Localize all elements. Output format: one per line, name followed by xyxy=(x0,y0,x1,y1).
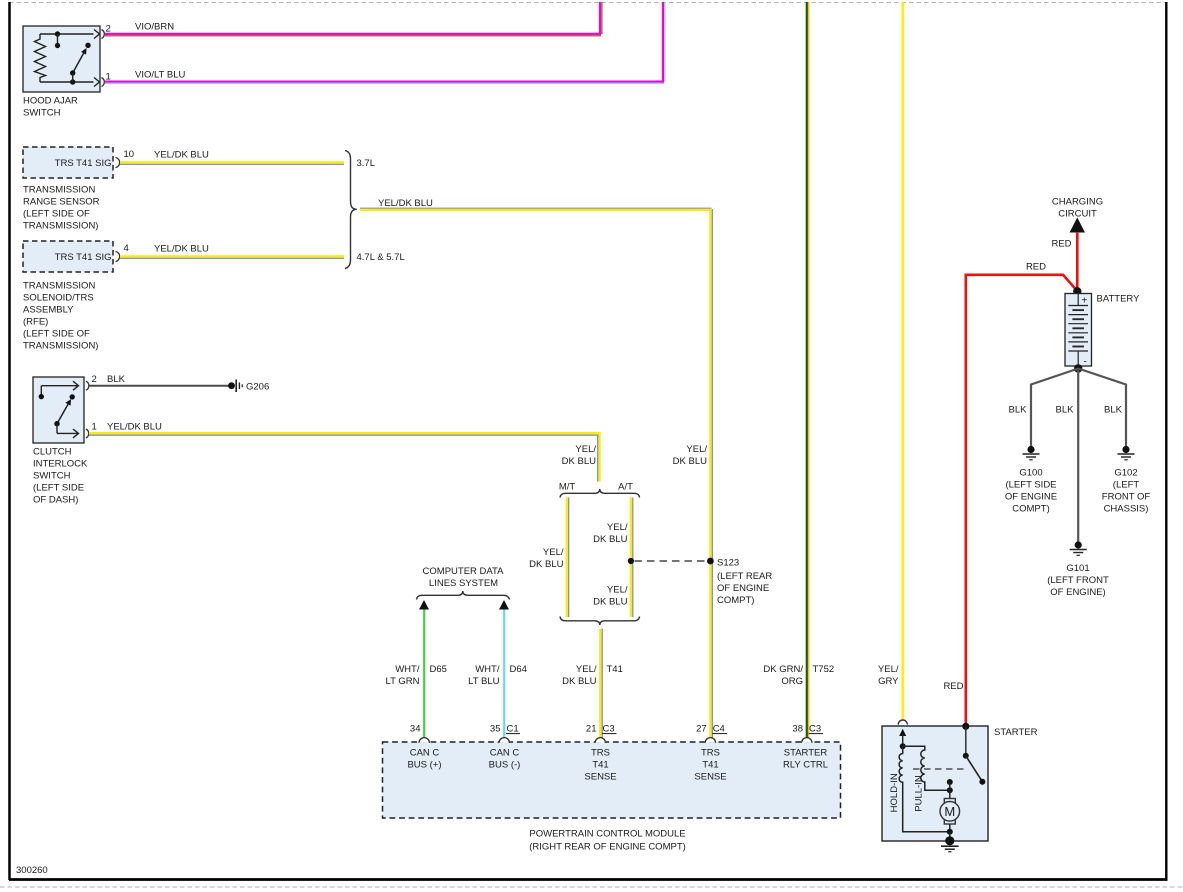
svg-text:BLK: BLK xyxy=(1009,405,1028,416)
starter box xyxy=(882,726,988,841)
svg-text:CLUTCH: CLUTCH xyxy=(33,447,72,458)
long vertical wire YEL/DK BLU to PCM pin 27 xyxy=(673,209,713,738)
svg-text:+: + xyxy=(1082,296,1088,307)
svg-text:YEL/: YEL/ xyxy=(543,547,564,558)
svg-text:C4: C4 xyxy=(713,724,725,735)
svg-text:YEL/: YEL/ xyxy=(878,664,899,675)
wire WHT/LT GRN D65 xyxy=(386,610,447,738)
PCM pin function labels xyxy=(407,748,828,783)
svg-text:SENSE: SENSE xyxy=(584,772,616,783)
wire RED battery to charging circuit xyxy=(1051,232,1077,291)
ground G206 xyxy=(228,380,269,393)
svg-text:VIO/LT BLU: VIO/LT BLU xyxy=(135,69,185,80)
svg-text:4.7L & 5.7L: 4.7L & 5.7L xyxy=(357,252,405,263)
svg-text:C3: C3 xyxy=(603,724,615,735)
engine variant merge brace xyxy=(345,151,405,269)
svg-text:RANGE SENSOR: RANGE SENSOR xyxy=(23,197,100,208)
svg-text:FRONT OF: FRONT OF xyxy=(1102,492,1151,503)
svg-text:WHT/: WHT/ xyxy=(475,664,500,675)
svg-text:C3: C3 xyxy=(809,724,821,735)
ground G101 xyxy=(1047,541,1109,598)
computer data lines system callout xyxy=(417,566,510,600)
wire YEL/GRY to starter xyxy=(878,2,903,720)
svg-text:SENSE: SENSE xyxy=(694,772,726,783)
svg-text:G101: G101 xyxy=(1066,563,1089,574)
svg-text:4: 4 xyxy=(124,243,129,254)
svg-text:(LEFT SIDE OF: (LEFT SIDE OF xyxy=(23,209,90,220)
svg-text:SOLENOID/TRS: SOLENOID/TRS xyxy=(23,293,94,304)
starter connector arc xyxy=(898,720,907,725)
svg-text:YEL/: YEL/ xyxy=(576,664,597,675)
svg-text:INTERLOCK: INTERLOCK xyxy=(33,459,88,470)
svg-text:3.7L: 3.7L xyxy=(357,158,376,169)
svg-text:1: 1 xyxy=(92,422,97,433)
svg-text:YEL/: YEL/ xyxy=(575,444,596,455)
svg-text:COMPT): COMPT) xyxy=(1012,504,1049,515)
svg-text:OF DASH): OF DASH) xyxy=(33,495,78,506)
svg-text:CIRCUIT: CIRCUIT xyxy=(1058,209,1097,220)
PCM pin 38 C3 xyxy=(792,724,823,735)
svg-text:(RIGHT REAR OF ENGINE COMPT): (RIGHT REAR OF ENGINE COMPT) xyxy=(529,842,686,853)
svg-text:35: 35 xyxy=(490,724,501,735)
svg-text:T752: T752 xyxy=(813,664,835,675)
ground G100 xyxy=(1005,446,1057,515)
wire YEL/DK BLU pin 10 (3.7L) xyxy=(120,150,344,165)
M/T A/T split brace xyxy=(559,482,640,498)
svg-text:TRS T41 SIG: TRS T41 SIG xyxy=(55,252,112,263)
svg-text:CHARGING: CHARGING xyxy=(1052,197,1103,208)
transmission solenoid/TRS assembly box xyxy=(23,241,129,352)
svg-text:TRANSMISSION: TRANSMISSION xyxy=(23,185,95,196)
svg-text:S123: S123 xyxy=(717,558,739,569)
svg-text:YEL/: YEL/ xyxy=(686,444,707,455)
PCM pin 27 C4 xyxy=(696,724,727,735)
CAN C bus (-) arrow xyxy=(499,600,509,610)
svg-text:BATTERY: BATTERY xyxy=(1097,294,1141,305)
PCM connector arcs xyxy=(419,738,812,743)
svg-text:BLK: BLK xyxy=(1104,405,1123,416)
starter feed arrow xyxy=(899,729,906,749)
svg-text:COMPT): COMPT) xyxy=(717,595,754,606)
svg-text:HOLD-IN: HOLD-IN xyxy=(889,773,900,812)
dashed splice link to S123 xyxy=(635,560,707,562)
svg-text:CAN C: CAN C xyxy=(410,748,440,759)
wire VIO/LT BLU (pin 1 to top) xyxy=(105,2,665,84)
svg-text:TRANSMISSION): TRANSMISSION) xyxy=(23,341,98,352)
svg-text:-: - xyxy=(1084,357,1087,368)
M/T A/T merge brace xyxy=(560,617,640,626)
svg-text:M: M xyxy=(944,804,955,819)
svg-text:DK BLU: DK BLU xyxy=(593,597,627,608)
M/T branch wire YEL/DK BLU xyxy=(529,498,569,618)
battery xyxy=(1065,294,1140,368)
svg-text:(LEFT SIDE: (LEFT SIDE xyxy=(33,483,84,494)
svg-text:DK GRN/: DK GRN/ xyxy=(763,664,803,675)
wire DK GRN/ORG T752 xyxy=(763,2,834,738)
svg-text:RED: RED xyxy=(943,681,963,692)
transmission range sensor box xyxy=(23,147,134,232)
svg-text:TRS: TRS xyxy=(701,748,720,759)
svg-text:10: 10 xyxy=(124,149,135,160)
svg-text:CAN C: CAN C xyxy=(490,748,520,759)
svg-text:OF ENGINE: OF ENGINE xyxy=(1005,492,1057,503)
svg-text:34: 34 xyxy=(410,724,421,735)
svg-text:YEL/DK BLU: YEL/DK BLU xyxy=(378,198,433,209)
charging circuit arrow xyxy=(1070,218,1086,233)
PCM box xyxy=(383,742,841,818)
svg-text:TRANSMISSION: TRANSMISSION xyxy=(23,281,95,292)
svg-text:RLY CTRL: RLY CTRL xyxy=(783,760,828,771)
svg-text:YEL/DK BLU: YEL/DK BLU xyxy=(107,422,162,433)
svg-text:DK BLU: DK BLU xyxy=(562,676,596,687)
starter motor M xyxy=(940,799,960,832)
svg-text:T41: T41 xyxy=(607,664,623,675)
svg-text:TRS: TRS xyxy=(591,748,610,759)
svg-text:21: 21 xyxy=(586,724,597,735)
merged wire YEL/DK BLU to A/T branch xyxy=(360,198,712,210)
svg-text:RED: RED xyxy=(1026,262,1046,273)
svg-text:DK BLU: DK BLU xyxy=(593,534,627,545)
PCM pin 35 C1 xyxy=(490,724,520,735)
svg-text:LINES SYSTEM: LINES SYSTEM xyxy=(429,578,498,589)
svg-text:SWITCH: SWITCH xyxy=(23,108,61,119)
svg-text:GRY: GRY xyxy=(878,676,899,687)
svg-text:300260: 300260 xyxy=(16,865,48,876)
svg-text:T41: T41 xyxy=(592,760,608,771)
svg-text:38: 38 xyxy=(792,724,803,735)
svg-text:(LEFT FRONT: (LEFT FRONT xyxy=(1047,575,1109,586)
wire YEL/DK BLU from clutch switch pin 1 xyxy=(89,433,601,481)
svg-text:YEL/: YEL/ xyxy=(607,522,628,533)
svg-text:T41: T41 xyxy=(702,760,718,771)
svg-text:YEL/DK BLU: YEL/DK BLU xyxy=(154,150,209,161)
hold-in coil xyxy=(889,746,950,832)
svg-text:G206: G206 xyxy=(246,382,269,393)
svg-text:YEL/: YEL/ xyxy=(607,585,628,596)
svg-text:(LEFT SIDE OF: (LEFT SIDE OF xyxy=(23,329,90,340)
svg-text:RED: RED xyxy=(1051,239,1071,250)
svg-text:LT BLU: LT BLU xyxy=(468,676,499,687)
svg-text:ASSEMBLY: ASSEMBLY xyxy=(23,305,74,316)
svg-text:VIO/BRN: VIO/BRN xyxy=(135,22,174,33)
A/T branch wire YEL/DK BLU xyxy=(593,498,633,618)
wire BLK battery to G101 xyxy=(1056,369,1079,543)
svg-text:M/T: M/T xyxy=(559,482,576,493)
wire YEL/DK BLU to PCM pin 21 xyxy=(562,629,623,738)
wire BLK battery to G100 xyxy=(1009,369,1079,447)
splice junction dot on A/T branch xyxy=(628,558,634,564)
svg-text:DK BLU: DK BLU xyxy=(673,456,707,467)
wire VIO/BRN (pin 2 to top) xyxy=(105,2,602,36)
svg-text:(LEFT: (LEFT xyxy=(1113,480,1140,491)
wire WHT/LT BLU D64 xyxy=(468,610,527,738)
svg-text:A/T: A/T xyxy=(618,482,633,493)
charging circuit label xyxy=(1052,197,1103,220)
pull-in coil xyxy=(903,746,950,812)
svg-text:BLK: BLK xyxy=(107,374,126,385)
svg-text:(RFE): (RFE) xyxy=(23,317,48,328)
hood ajar switch S1 xyxy=(23,24,111,119)
svg-text:(LEFT REAR: (LEFT REAR xyxy=(717,571,772,582)
svg-text:YEL/DK BLU: YEL/DK BLU xyxy=(154,244,209,255)
svg-text:CHASSIS): CHASSIS) xyxy=(1104,504,1149,515)
battery negative junction dot xyxy=(1074,364,1082,372)
wire RED battery to starter xyxy=(966,262,1078,727)
wire BLK to G206 xyxy=(89,385,229,387)
splice S123 dot xyxy=(707,558,714,565)
S123 label xyxy=(717,558,772,607)
svg-text:BLK: BLK xyxy=(1056,405,1075,416)
clutch interlock switch xyxy=(33,374,162,506)
PCM name xyxy=(529,829,686,853)
PCM pin 21 C3 xyxy=(586,724,617,735)
svg-text:G100: G100 xyxy=(1019,468,1042,479)
svg-text:OF ENGINE: OF ENGINE xyxy=(717,583,769,594)
svg-text:STARTER: STARTER xyxy=(994,727,1038,738)
svg-text:(LEFT SIDE: (LEFT SIDE xyxy=(1005,480,1056,491)
solenoid linkage dashed line xyxy=(913,768,964,770)
svg-text:WHT/: WHT/ xyxy=(395,664,420,675)
svg-text:DK BLU: DK BLU xyxy=(529,559,563,570)
svg-text:BUS (-): BUS (-) xyxy=(489,760,521,771)
svg-text:G102: G102 xyxy=(1114,468,1137,479)
svg-text:POWERTRAIN CONTROL MODULE: POWERTRAIN CONTROL MODULE xyxy=(529,829,685,840)
CAN C bus (+) arrow xyxy=(419,600,429,610)
wire YEL/DK BLU pin 4 (4.7L & 5.7L) xyxy=(120,244,344,259)
svg-text:TRANSMISSION): TRANSMISSION) xyxy=(23,221,98,232)
svg-text:2: 2 xyxy=(92,374,97,385)
svg-text:D65: D65 xyxy=(430,664,447,675)
svg-text:PULL-IN: PULL-IN xyxy=(913,775,924,812)
starter ground xyxy=(941,832,959,852)
motor bottom junction dot xyxy=(947,829,953,835)
svg-text:C1: C1 xyxy=(507,724,519,735)
svg-text:DK BLU: DK BLU xyxy=(562,456,596,467)
svg-text:HOOD AJAR: HOOD AJAR xyxy=(23,96,78,107)
battery positive junction dot xyxy=(1073,287,1081,295)
solenoid contact node xyxy=(947,779,953,799)
svg-text:OF ENGINE): OF ENGINE) xyxy=(1050,587,1105,598)
svg-text:TRS T41 SIG: TRS T41 SIG xyxy=(55,158,112,169)
svg-text:ORG: ORG xyxy=(781,676,803,687)
svg-text:LT GRN: LT GRN xyxy=(386,676,420,687)
wire BLK battery to G102 xyxy=(1078,369,1126,447)
ground G102 xyxy=(1102,446,1151,515)
svg-text:SWITCH: SWITCH xyxy=(33,471,71,482)
svg-text:STARTER: STARTER xyxy=(784,748,828,759)
svg-text:D64: D64 xyxy=(510,664,527,675)
svg-text:27: 27 xyxy=(696,724,707,735)
svg-text:COMPUTER DATA: COMPUTER DATA xyxy=(423,566,505,577)
solenoid switch xyxy=(962,723,985,785)
svg-text:BUS (+): BUS (+) xyxy=(407,760,441,771)
